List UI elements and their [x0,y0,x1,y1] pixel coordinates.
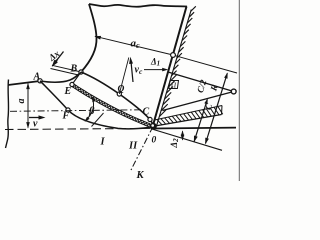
flank hatching [157,106,223,124]
K dash-dot line [130,127,153,173]
chip flow trajectory line [119,58,129,95]
a_c arrowhead [94,36,101,40]
segment E-B [72,72,81,85]
tool rake face [157,10,192,127]
dimension a_c line [95,36,173,55]
surface bulge A to B [40,72,81,82]
svg-text:vc: vc [135,65,143,77]
svg-text:v: v [33,119,38,130]
boundary curve I [40,81,153,129]
chip right edge on tool face [153,7,187,127]
node Q [117,92,121,96]
boundary curve II B-Q-C [81,72,153,126]
node circle on face [171,53,176,58]
svg-text:a: a [16,99,27,104]
dashed machined level line [5,128,150,129]
delta-x rail 1 [52,65,80,71]
П box symbol [169,81,179,90]
svg-text:Δ2: Δ2 [169,138,180,149]
delta-2 dimension line [182,131,184,140]
chip left edge [81,4,97,72]
a_c extension line [175,56,237,73]
svg-text:К: К [136,170,145,181]
delta-x dimension arrow [52,52,63,67]
tool tip knot O [150,123,157,130]
v_c arrow [131,60,133,83]
workpiece left edge [6,80,9,149]
dimension line C/2 [194,100,207,142]
dimension a line [27,84,29,128]
rake face hatching [159,6,196,116]
tool flank line [154,115,222,127]
node A [38,79,42,83]
springback sloped line [154,130,223,151]
node B [79,70,83,74]
dimension line C [206,73,228,143]
page border right [238,0,240,181]
node F [66,108,70,112]
node E [70,82,74,86]
velocity v arrow [29,117,43,119]
chip top wavy edge [89,4,187,7]
node C [148,117,152,121]
R upper line [168,72,234,92]
svg-text:E: E [64,86,72,97]
flank wedge top boundary [155,106,223,121]
svg-text:0: 0 [152,136,157,146]
shear band ladder [72,84,150,127]
svg-text:C: C [143,107,150,118]
R center circle [231,89,236,94]
machined surface line [153,127,236,130]
svg-text:II: II [128,141,138,152]
tick across curve I [92,113,104,127]
delta-1 arrow [144,69,165,71]
svg-text:A: A [33,72,41,83]
delta-x rail 2 [51,69,79,76]
svg-text:F: F [62,111,70,122]
dash-dot centerline [10,110,141,112]
flank wedge right closure [221,106,224,115]
svg-text:β: β [88,106,95,117]
R lower line [163,92,234,111]
workpiece top surface [8,81,40,85]
angle beta arc [85,97,94,121]
